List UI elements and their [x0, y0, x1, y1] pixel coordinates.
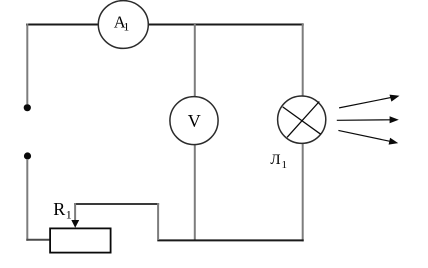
wire wiper arrow stem — [74, 203, 76, 222]
voltmeter V — [170, 97, 218, 145]
svg-text:1: 1 — [282, 159, 288, 171]
wire wiper right vertical — [157, 203, 159, 240]
node terminal lower dot — [24, 152, 31, 159]
wire left vertical lower — [26, 159, 28, 241]
ammeter A1 — [98, 1, 148, 49]
light ray arrow bottom — [338, 130, 398, 144]
svg-text:1: 1 — [66, 207, 72, 221]
wire lamp stem top — [302, 24, 304, 97]
light ray arrow top — [339, 95, 399, 108]
node terminal upper dot — [24, 104, 31, 111]
label R1 — [53, 199, 72, 221]
wire to rheostat left terminal — [26, 239, 50, 241]
light ray arrow middle — [337, 116, 399, 123]
svg-text:V: V — [188, 111, 201, 131]
rheostat R1 body — [50, 228, 111, 252]
wire top horizontal — [26, 24, 304, 26]
wire voltmeter stem top — [194, 24, 196, 98]
svg-text:R: R — [53, 199, 65, 219]
rheostat wiper arrowhead — [71, 220, 79, 228]
lamp L1 — [278, 96, 326, 143]
svg-text:1: 1 — [123, 19, 129, 33]
svg-text:Л: Л — [270, 152, 280, 168]
label L1 — [270, 152, 287, 171]
wire bottom horizontal — [157, 239, 303, 241]
wire voltmeter stem bottom — [194, 144, 196, 240]
wire rheostat wiper horizontal — [74, 203, 159, 205]
wire left vertical upper — [26, 24, 28, 105]
wire lamp stem bottom — [302, 143, 304, 241]
